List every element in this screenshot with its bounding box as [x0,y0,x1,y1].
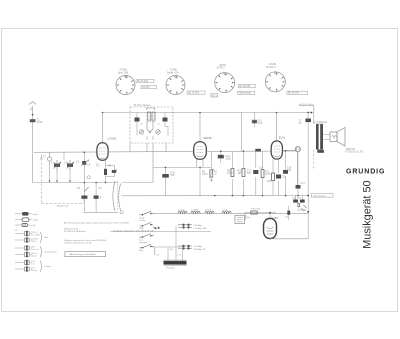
svg-text:C14: C14 [259,167,264,170]
svg-text:Ers. 240V: Ers. 240V [31,234,40,237]
capacitor C18 near transformer [314,150,324,170]
tube V1 UCH81 [97,143,108,161]
resistor R10 [242,151,245,196]
connector legend row 3 [15,223,31,226]
svg-text:C2a: C2a [51,162,56,165]
wire bottom left bus with node 1 [84,211,124,214]
tube socket view circle 1 [116,76,135,95]
capacitor C1 antenna coupling [30,119,36,122]
svg-text:C22 Abgl.: C22 Abgl. [194,245,203,248]
tube V3 cathode capacitor C15 [276,159,281,196]
wires input circuit [50,152,71,182]
variable capacitor C2a [54,160,62,171]
node junction dots power [269,195,309,214]
svg-text:L9 Sp: L9 Sp [223,210,229,212]
svg-text:Ra 1: Ra 1 [212,94,218,97]
coil L9 [222,211,231,213]
svg-text:EL41: EL41 [279,136,286,140]
trimmer pair C22 C23 [178,245,192,250]
tube socket view circle 4 [265,72,285,92]
wire coil rail y=213 [154,212,308,214]
svg-text:Voltages measured to chassis w: Voltages measured to chassis with GRUNDI… [64,239,107,242]
svg-text:Masse: Masse [31,270,37,272]
connector group radio [15,231,42,243]
svg-text:Masse: Masse [31,256,37,258]
svg-text:auf 220 V. Netz: auf 220 V. Netz [299,103,313,106]
wire B+ rail top y=112.5 [103,112,314,114]
svg-text:Netz: Netz [44,236,48,239]
svg-text:Tonabnehmer: Tonabnehmer [44,250,57,253]
connector legend row 1 [15,212,32,216]
tube V2 EBF80 [194,142,207,160]
resistor R11 [261,151,264,196]
label box Rueckwand [311,194,333,198]
svg-text:Bandtasten: 1 Ausschalt. 2 KW: Bandtasten: 1 Ausschalt. 2 KW 3 MW 4 LW … [113,230,154,233]
svg-text:= 5µM: = 5µM [32,220,38,222]
notes box [65,251,106,256]
speaker [330,128,345,147]
tube V3 cathode resistor R12 [272,159,275,196]
svg-text:Netz: Netz [246,216,250,219]
connector legend row 2 [15,218,32,221]
tube socket view circle 2 [166,76,185,95]
connector group speaker [15,260,42,272]
svg-text:aggregat: aggregat [139,241,147,244]
svg-text:50µF 50µF: 50µF 50µF [292,198,302,200]
svg-text:Bv 29 444: Bv 29 444 [240,85,251,88]
svg-text:ZF-Filt. II: ZF-Filt. II [266,66,276,69]
svg-text:Bv 30 404: Bv 30 404 [137,80,148,83]
svg-text:0,3M: 0,3M [227,172,232,175]
svg-text:ZF-Filt. I: ZF-Filt. I [217,67,226,70]
svg-text:VTVM at 220V line (P= 42 W): VTVM at 220V line (P= 42 W) [64,242,92,245]
tube V1 cathode components [97,161,117,183]
svg-text:1,5nF: 1,5nF [37,121,44,124]
capacitor C12 on mid rail [218,151,224,163]
resistor R3 [104,169,107,175]
svg-text:C17: C17 [301,182,306,185]
svg-text:Lautspr.: Lautspr. [44,265,52,268]
coupling coil L3 tall arcs [113,181,121,211]
input circuit coil L1 [47,152,51,165]
wire AVC line y=167.4 [153,151,211,174]
capacitor C17 [296,185,301,196]
svg-text:Spul. 054: Spul. 054 [118,71,129,74]
wire left input bottom rail [33,182,118,184]
svg-text:C2b: C2b [64,162,69,165]
svg-text:Musikgerät 50: Musikgerät 50 [362,180,374,248]
wire line to switch bank [122,181,153,183]
svg-text:AÜ 3708-014: AÜ 3708-014 [313,121,328,124]
output transformer [316,124,330,150]
svg-text:schalter: schalter [139,219,146,222]
svg-text:C20 Abgl.: C20 Abgl. [194,224,203,227]
svg-text:Alle Gleichspannungen gegen Ch: Alle Gleichspannungen gegen Chassis geme… [64,221,129,224]
switch S4 [139,244,154,255]
capacitor blob box right [163,118,168,122]
svg-text:ZF-Osz.-Spulen: ZF-Osz.-Spulen [134,104,152,107]
wire mains to rectifier [245,213,264,220]
wire screen feed [240,113,242,152]
svg-text:Abstimmung: Abstimmung [57,204,68,207]
tube V3 EL41 [271,141,282,159]
svg-text:29 304: 29 304 [142,86,150,89]
trimmer capacitor inside box left [139,130,143,134]
mains entry box [235,215,245,223]
connector group pickup [15,245,42,257]
capacitor C19 top right [305,113,311,196]
potentiometer R7 volume [209,169,214,181]
coil L6 [178,211,187,213]
resistor R13 on rail [255,149,261,152]
svg-text:EBF80: EBF80 [204,136,213,140]
wire rectifier heater bottom [264,196,308,239]
wire anode lead tube V1 [102,113,104,144]
wire band bus y=232 [110,231,211,233]
value label boxes near sockets [136,80,307,98]
capacitor blob box left [135,118,140,122]
svg-text:100p: 100p [226,158,232,161]
resistor R15 [251,211,257,214]
capacitor C3 [81,196,87,199]
svg-text:5W 150Hz: 5W 150Hz [298,210,307,212]
variable capacitor C2b [67,160,75,171]
svg-text:= 5µM: = 5µM [32,214,38,216]
phone jack [282,147,300,185]
capacitor C6 [112,170,116,173]
wire mains feed [299,106,314,124]
capacitor C4 variable [82,161,86,165]
node junction dots rails [49,112,299,197]
svg-text:UCH81: UCH81 [108,137,117,141]
oscillator coil L5 inside box [146,108,156,133]
switch S2 [139,222,159,229]
capacitor C10 [162,174,169,196]
antenna [29,102,36,183]
oscillator unit dashed box [130,107,173,143]
svg-text:0,7M: 0,7M [265,173,270,176]
svg-text:C23 Abgl. LW: C23 Abgl. LW [194,248,206,251]
svg-text:1M: 1M [238,172,241,175]
svg-text:2nF: 2nF [258,122,263,125]
wire chassis rail y=195.5 [122,195,308,197]
svg-text:1,2k: 1,2k [285,217,289,219]
svg-text:Wellenbereiche:: Wellenbereiche: [64,228,79,231]
svg-text:UY85: UY85 [271,216,278,220]
svg-text:Bv 29 014: Bv 29 014 [188,92,199,95]
coil L8 [205,211,214,213]
svg-text:L8 LW: L8 LW [206,210,212,212]
svg-text:5nF: 5nF [287,169,292,172]
switch S1 [139,211,154,215]
trimmer pair C20 C21 [178,224,192,229]
tube V2 bottom leads [197,159,204,196]
switch contact on bias line [84,187,88,191]
svg-text:Netz: Netz [139,249,143,252]
svg-text:Bv 29 104: Bv 29 104 [288,92,299,95]
svg-text:L6 KW: L6 KW [179,210,185,212]
capacitor C16 [283,151,288,196]
capacitor C14 [253,151,258,196]
svg-text:5nF: 5nF [171,174,176,177]
svg-text:P 203 8 (1)-1,5V: P 203 8 (1)-1,5V [346,151,364,154]
svg-text:Kurzschl.: Kurzschl. [31,248,39,251]
svg-text:R15 125Ω: R15 125Ω [251,209,261,211]
rectifier tube V4 UY85 [264,219,277,239]
svg-text:Ferrit-Ant.: Ferrit-Ant. [166,266,175,269]
coil L7 [191,211,200,213]
ferrite rod antenna [153,226,187,266]
svg-text:C15: C15 [282,176,287,179]
switch S3 [139,234,154,238]
svg-text:Spulensatz: Spulensatz [239,92,252,95]
svg-text:L7 MW: L7 MW [192,210,198,212]
svg-text:Rückwandsich.: Rückwandsich. [313,195,327,197]
tube socket view circle 3 [215,73,235,93]
node junction dots top rail [307,112,312,114]
electrolytic capacitor C24 50+50uF [293,195,306,208]
node 2 [87,176,90,179]
resistor R16 [287,206,290,220]
grid stub label [97,163,106,183]
svg-text:0,1M: 0,1M [202,173,207,176]
svg-text:GRUNDIG: GRUNDIG [346,168,385,175]
trimmer capacitor inside box right [156,130,160,134]
svg-text:R12: R12 [267,180,272,183]
AC symbol [301,209,305,211]
tuning gang dashed link [42,154,85,204]
svg-text:KW MW LW TA-Betrieb: KW MW LW TA-Betrieb [64,230,86,233]
capacitor C5 on B+ [252,113,257,128]
svg-text:220 V: 220 V [31,241,37,243]
wire osc leads below box [130,143,166,182]
svg-text:C21 Abgl. MW: C21 Abgl. MW [194,227,207,230]
wire anode lead tube V3 [276,113,278,142]
svg-text:5nF: 5nF [247,172,252,175]
svg-text:Drehk. 054: Drehk. 054 [167,71,179,74]
wires inside oscillator box [134,113,168,141]
resistor R9 [231,151,234,196]
svg-text:= µM: = µM [31,225,36,227]
wire mid rail y=151.5 [34,151,296,152]
svg-text:1M: 1M [214,174,217,176]
svg-text:Abweichungen vorbehalten: Abweichungen vorbehalten [70,253,97,256]
wire anode lead tube V2 [199,113,201,143]
capacitor C5 [94,196,99,199]
left bias components [81,152,101,212]
